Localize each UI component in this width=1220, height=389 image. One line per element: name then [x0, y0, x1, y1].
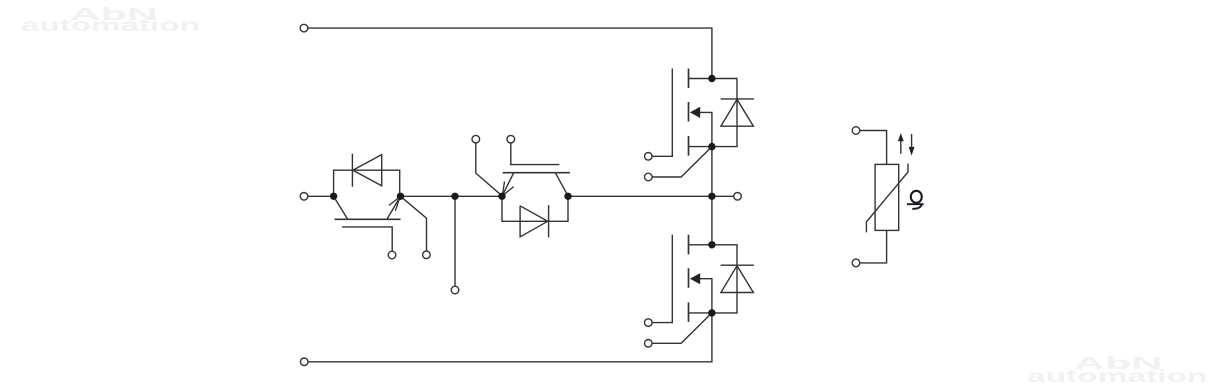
svg-text:automation: automation	[1027, 366, 1207, 386]
svg-text:automation: automation	[21, 15, 200, 35]
